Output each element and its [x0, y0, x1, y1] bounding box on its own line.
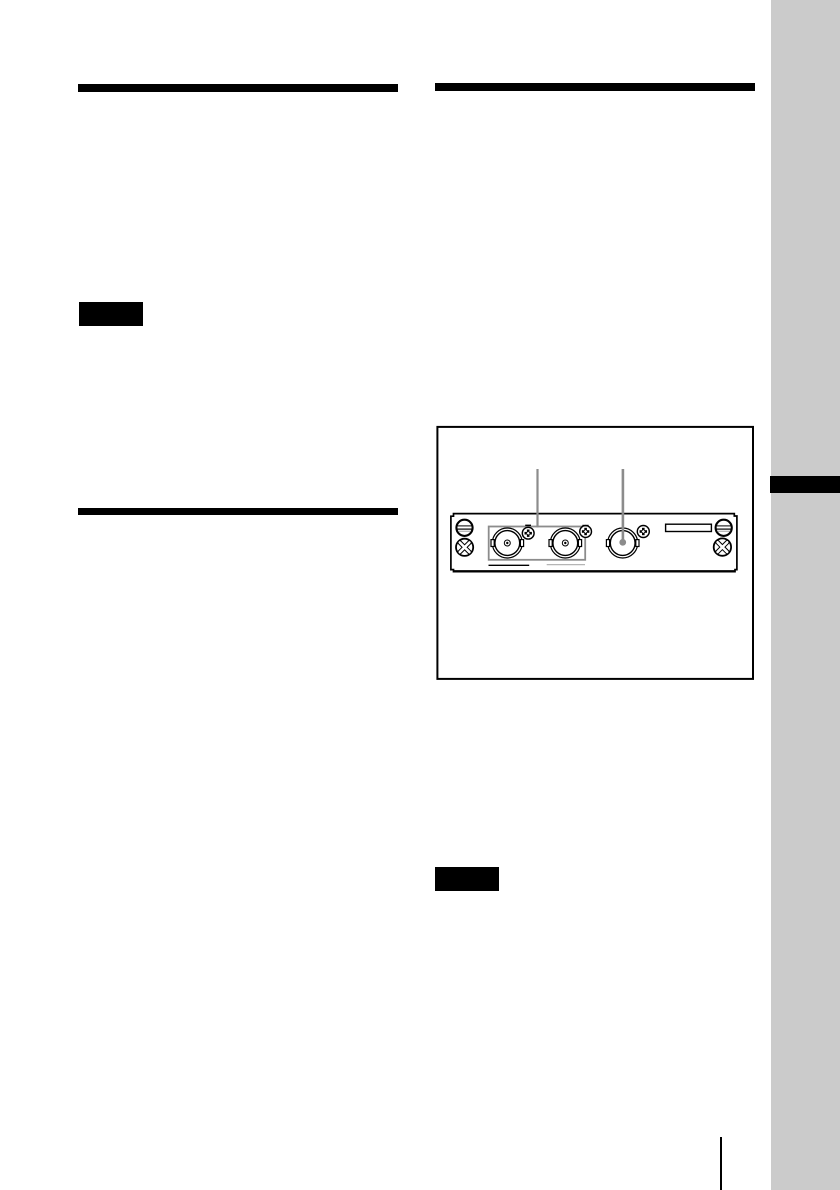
phillips screw above BNC 2 [580, 525, 592, 538]
black tab on sidebar [770, 476, 840, 493]
left column heading rule [78, 84, 398, 92]
note box (right column) [435, 867, 499, 891]
leader dot on BNC 3 [620, 539, 627, 546]
phillips screw right of BNC 3 [637, 526, 649, 538]
leader line to BNC group [536, 469, 538, 527]
phillips screw above BNC 1 [522, 525, 534, 540]
leader line to BNC 3 [622, 469, 625, 543]
second section heading rule (left column) [78, 508, 398, 515]
BNC connector 2 [549, 528, 582, 558]
footer vertical rule [720, 1137, 722, 1190]
BNC connector 3 [606, 528, 639, 558]
cross screw right [714, 538, 731, 555]
figure frame box [437, 427, 753, 679]
note box (left column) [79, 302, 143, 326]
blank label plate [666, 524, 712, 531]
right column heading rule [435, 83, 755, 91]
gray group frame around BNC 1 and 2 [489, 527, 586, 560]
panel bottom shadow edge [454, 570, 736, 572]
slotted screw left [456, 520, 472, 536]
gray sidebar (thumb index) [771, 0, 840, 1190]
slotted screw right [716, 520, 732, 536]
cross screw left [456, 539, 473, 556]
label underline gray under BNC 2 [547, 564, 585, 566]
panel plate outline [451, 514, 737, 572]
BNC connector 1 [491, 528, 524, 558]
label underline black under BNC 1 [489, 564, 530, 566]
